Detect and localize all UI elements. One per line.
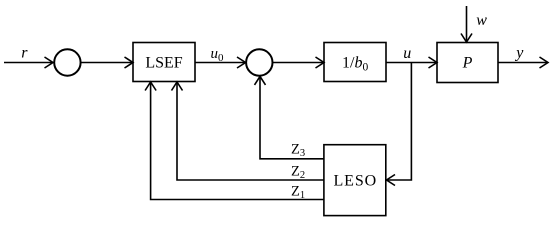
wire Z3 from LESO to S2 (255, 76, 324, 158)
wire 1/b0 to P with node u junction (386, 57, 437, 68)
wire S1 to LSEF (81, 57, 133, 68)
svg-text:u: u (403, 45, 411, 62)
svg-text:LSEF: LSEF (145, 55, 182, 72)
wire S2 to 1/b0 block (273, 57, 324, 68)
block P plant (437, 43, 498, 83)
svg-text:w: w (476, 12, 487, 29)
wire y output arrow (498, 57, 548, 68)
summing junction S2 (246, 49, 272, 75)
svg-text:LESO: LESO (333, 173, 377, 190)
wire Z1 from LESO to LSEF (145, 82, 324, 200)
block LESO observer (324, 145, 386, 216)
block LSEF U1 (133, 43, 195, 82)
svg-text:r: r (21, 45, 28, 62)
svg-text:y: y (514, 44, 524, 61)
wire LSEF to S2 (195, 57, 246, 68)
wire u feedback into LESO (387, 63, 412, 186)
wire Z2 from LESO to LSEF (172, 82, 324, 180)
wire w disturbance arrow (461, 6, 472, 42)
block 1/b0 (324, 43, 386, 82)
wire r input arrow (4, 57, 53, 68)
summing junction S1 (54, 49, 80, 75)
svg-text:P: P (462, 55, 473, 72)
